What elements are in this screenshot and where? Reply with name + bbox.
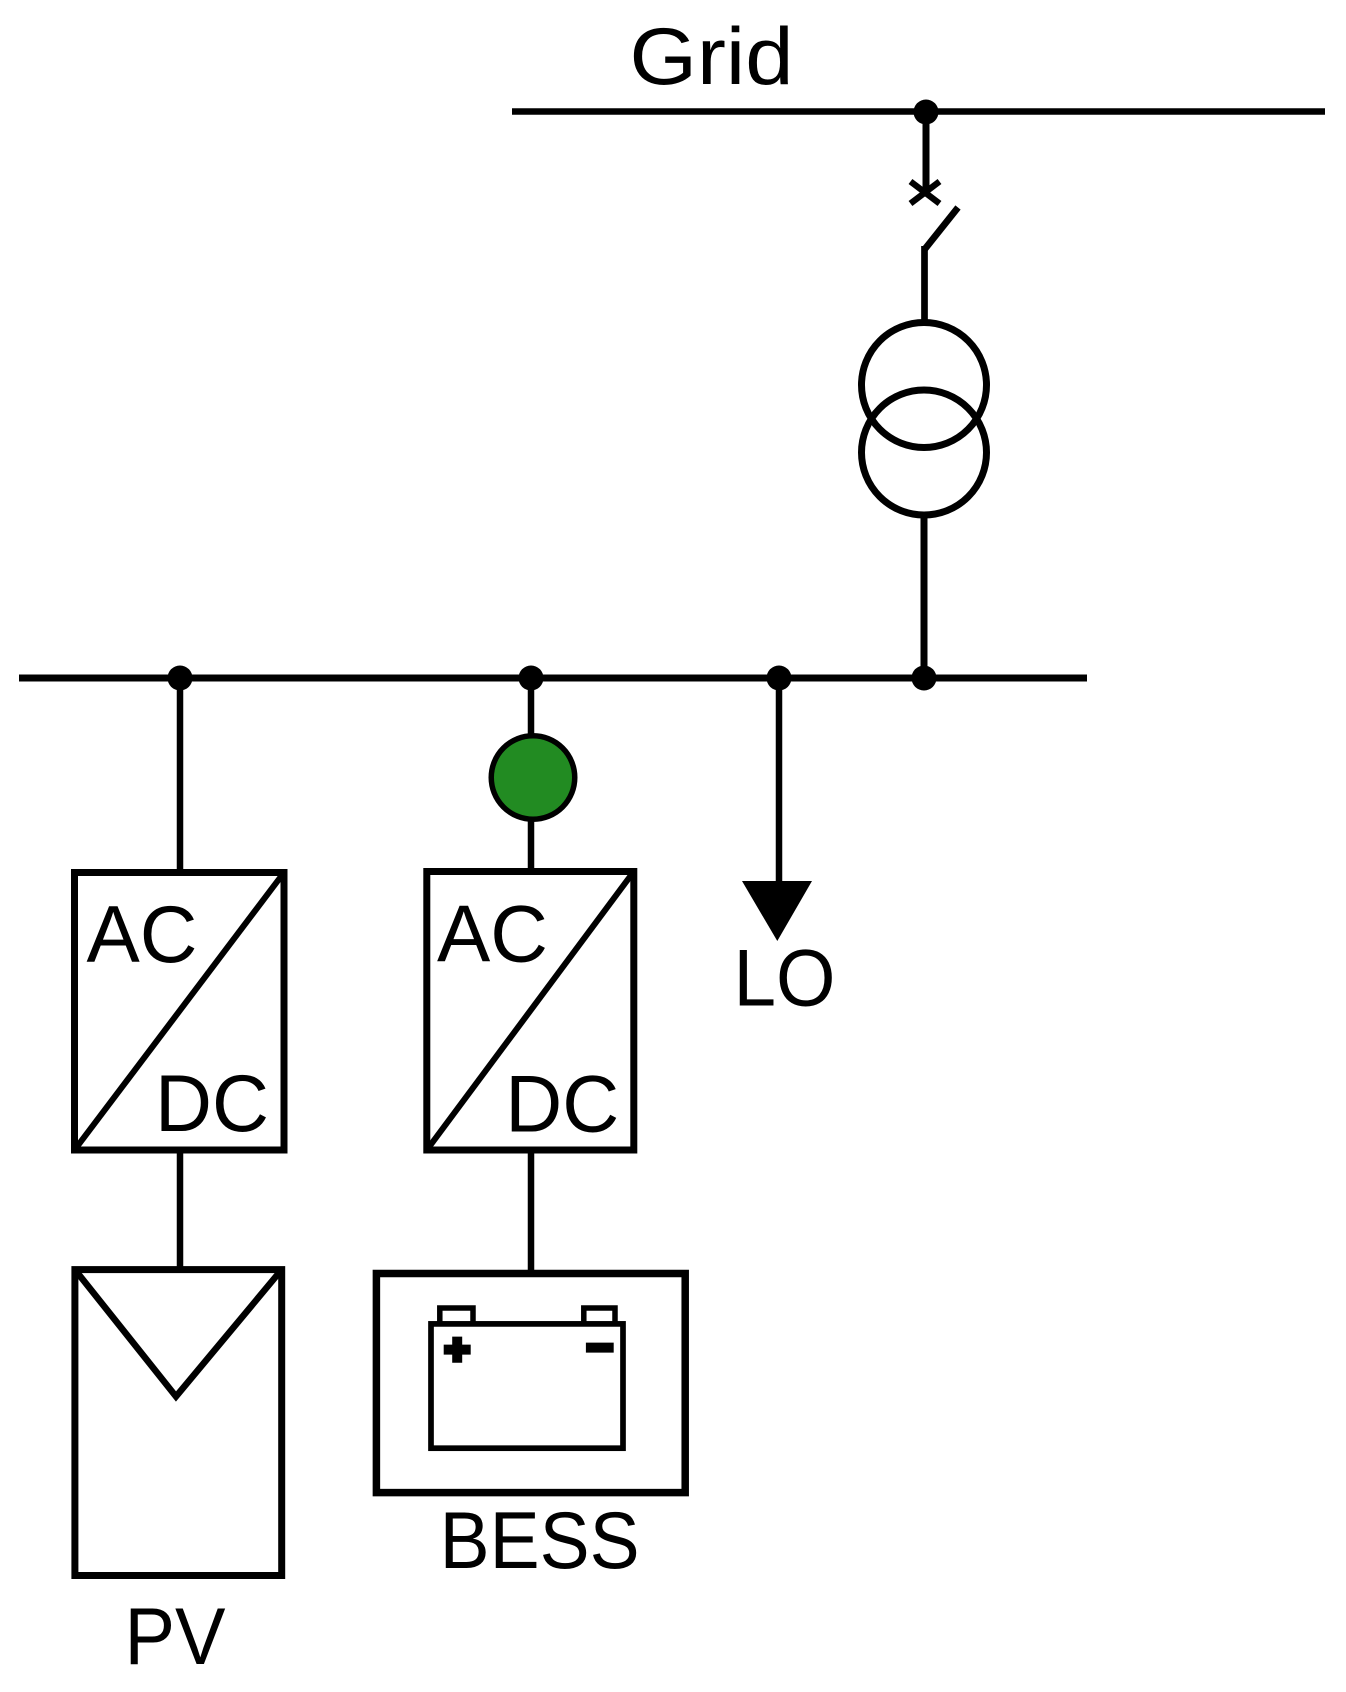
svg-text:LO: LO (734, 934, 836, 1024)
svg-text:Grid: Grid (630, 12, 794, 102)
svg-text:DC: DC (505, 1060, 619, 1150)
svg-text:AC: AC (437, 890, 548, 980)
svg-text:PV: PV (125, 1592, 226, 1682)
svg-text:DC: DC (155, 1059, 269, 1149)
svg-text:AC: AC (87, 890, 198, 980)
svg-text:BESS: BESS (440, 1496, 640, 1586)
